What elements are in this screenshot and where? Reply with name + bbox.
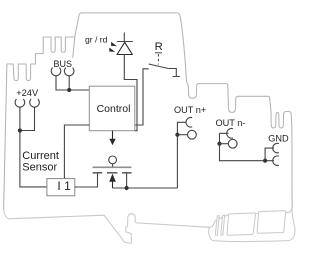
wire R left lead to control [135, 69, 149, 125]
junction dot OUT n+ [175, 133, 179, 137]
relay R contact arm [149, 64, 169, 69]
LED D1 triangle [117, 42, 132, 54]
wire OUT n+ riser [177, 122, 186, 188]
relay R anchor tick [155, 52, 162, 54]
junction dot OUT n- [217, 142, 221, 146]
svg-text:Current: Current [22, 150, 59, 162]
din foot fin right [257, 211, 286, 233]
svg-text:gr / rd: gr / rd [85, 34, 108, 44]
svg-text:BUS: BUS [54, 59, 73, 69]
control box U1 [89, 86, 135, 131]
terminal cup BUS left [51, 68, 61, 76]
mosfet Q1 gate tick [112, 164, 114, 168]
svg-text:OUT n-: OUT n- [216, 118, 246, 128]
wire +24V right down [20, 107, 35, 130]
wire +24V left down [20, 107, 47, 187]
arrow control to mosfet gate [112, 131, 114, 140]
din foot fin middle [227, 213, 255, 235]
current sensor box I1 [47, 179, 75, 196]
wire mosfet source bottom [113, 173, 178, 188]
junction dot BUS [67, 88, 71, 92]
junction dot +24V [18, 128, 22, 132]
terminal cup BUS right [64, 68, 74, 76]
wire GND stubs [265, 148, 274, 161]
wire LED to control box corner [124, 55, 137, 131]
wire BUS right down [68, 76, 70, 90]
mosfet Q1 gate bar [93, 166, 132, 168]
svg-text:Sensor: Sensor [22, 161, 57, 173]
clamp contact OUT n- [227, 129, 233, 139]
din rail foot outline [209, 209, 295, 242]
wire OUT n+ to test socket [177, 134, 187, 136]
test socket OUT n- [228, 139, 237, 148]
svg-text:+24V: +24V [16, 88, 39, 98]
svg-text:OUT n+: OUT n+ [174, 105, 206, 115]
din foot fin small B [221, 215, 225, 235]
svg-text:GND: GND [268, 133, 289, 143]
wire R right lead [168, 69, 180, 77]
relay R dashed link [157, 54, 159, 65]
housing outline bottom left and din latch [4, 210, 210, 244]
wire mosfet drain to I1 [75, 173, 98, 187]
svg-text:I 1: I 1 [57, 179, 71, 193]
wire OUT n- riser [220, 133, 266, 160]
housing tower wall tail [73, 37, 75, 58]
terminal cup +24V right [30, 99, 40, 107]
wire control to I1 [64, 125, 89, 179]
din foot fin small A [215, 216, 219, 236]
wire BUS left down [56, 76, 89, 90]
terminal cup +24V left [15, 99, 25, 107]
mosfet Q1 gate circle [109, 156, 117, 164]
junction dot GND [263, 159, 267, 163]
svg-text:R: R [155, 41, 163, 53]
junction dot mosfet source [125, 186, 129, 190]
LED D1 arrows [111, 42, 117, 46]
LED D1 cathode lead [123, 33, 125, 42]
mosfet Q1 channel segments [93, 172, 132, 174]
clamp contact GND upper [273, 143, 279, 153]
LED D1 cathode bar [117, 41, 133, 43]
clamp contact GND lower [273, 156, 279, 166]
wire OUT n- to test socket [220, 143, 229, 145]
svg-text:Control: Control [97, 103, 131, 115]
test socket OUT n+ [188, 130, 197, 139]
housing outline upper [4, 13, 293, 210]
mosfet Q1 substrate arrow [112, 181, 114, 188]
clamp contact OUT n+ [186, 118, 192, 128]
